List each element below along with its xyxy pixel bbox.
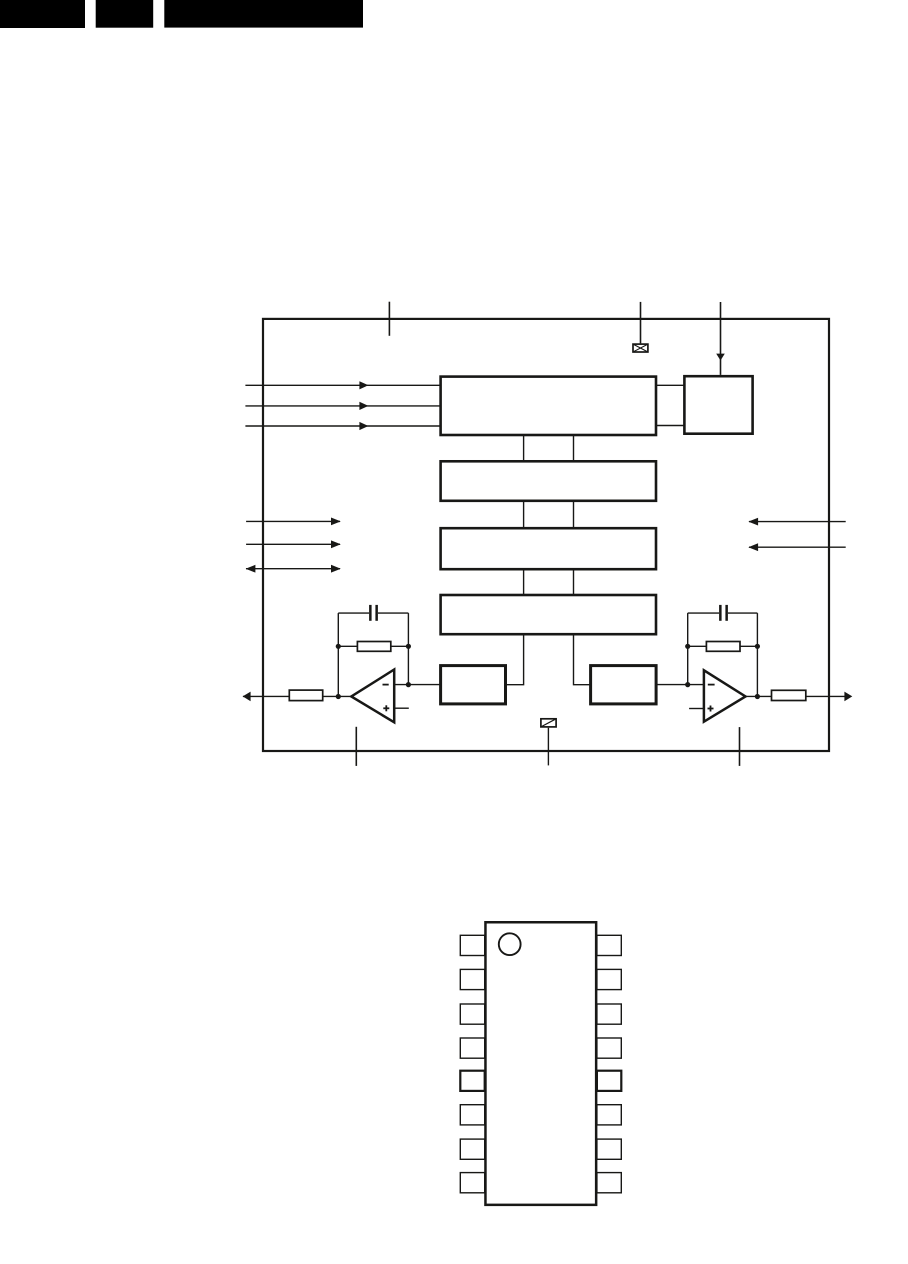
pin 1 — [460, 935, 484, 955]
bus wire 3b — [573, 569, 575, 595]
redaction bar 3 — [164, 0, 363, 28]
package body — [485, 922, 596, 1205]
feedback wire through resistor — [338, 645, 408, 647]
pin 3 — [460, 1004, 484, 1024]
plus sign A1 — [383, 705, 389, 711]
pin 8 — [460, 1173, 484, 1193]
crystal symbol (crossed box) — [633, 344, 648, 352]
capacitor C-fb right plates — [719, 605, 722, 621]
feedback right vertical right channel — [756, 613, 758, 696]
pin 12 (bold) — [597, 1071, 621, 1091]
wire DAC-left to opamp inverting input — [394, 684, 439, 686]
right input line 2 — [748, 543, 845, 551]
wire input-block to osc upper — [657, 384, 684, 386]
node dots feedback resistor right — [685, 644, 690, 649]
node dot right inverting input — [685, 682, 690, 687]
control line bidir 3 — [246, 565, 341, 573]
pin tick bottom middle — [547, 728, 549, 766]
op-amp A2 (points right) — [704, 670, 746, 721]
pin 10 — [597, 1139, 621, 1159]
wire input-block to osc lower — [657, 425, 684, 427]
pin 4 — [460, 1038, 484, 1058]
pin 14 — [597, 1004, 621, 1024]
output wire A1 — [243, 695, 351, 697]
node dot A1 output — [336, 694, 341, 699]
minus sign A2 — [708, 684, 715, 686]
op-amp A1 (points left) — [351, 670, 394, 723]
wire DAC-right to opamp inverting input — [657, 684, 704, 686]
feedback right vertical — [407, 613, 409, 685]
regulator symbol (slashed box) — [541, 719, 556, 727]
block row 2 — [441, 461, 656, 501]
pin 13 — [597, 1038, 621, 1058]
noninverting stub A1 — [394, 707, 409, 709]
pin 11 — [597, 1105, 621, 1125]
pin tick top XTAL — [640, 302, 642, 344]
DAC block right — [591, 666, 657, 704]
output arrowhead right — [844, 692, 852, 702]
pin 16 — [597, 935, 621, 955]
wire row4 to DAC-right — [574, 635, 590, 685]
node dots feedback resistor left — [336, 644, 341, 649]
bus wire 2a — [523, 501, 525, 528]
control line out 1 — [246, 518, 341, 526]
IC boundary box U1 — [263, 319, 829, 751]
feedback left vertical right channel — [687, 613, 689, 685]
pin 9 — [597, 1173, 621, 1193]
wire row4 to DAC-left — [507, 635, 524, 685]
pin 7 — [460, 1139, 484, 1159]
bus wire 1a — [523, 435, 525, 461]
output wire A2 — [746, 695, 846, 697]
feedback wire through resistor right — [688, 645, 758, 647]
control line out 2 — [246, 540, 341, 548]
input block (top wide box) — [441, 377, 656, 435]
feedback left vertical — [337, 613, 339, 696]
feedback resistor R-fb right — [706, 642, 740, 652]
bus wire 2b — [573, 501, 575, 528]
capacitor C-fb left plates — [369, 605, 372, 621]
node dot left inverting input — [406, 682, 411, 687]
pin 2 — [460, 969, 484, 989]
feedback resistor R-fb left — [357, 642, 390, 652]
redaction bar 2 — [96, 0, 154, 28]
bus wire 3a — [523, 569, 525, 595]
pin tick top VCC1 — [388, 302, 390, 336]
arrowhead CLKIN down — [716, 354, 725, 361]
input line 2 with arrow — [245, 402, 440, 410]
output arrowhead left — [243, 692, 251, 702]
minus sign A1 — [383, 684, 389, 686]
DAC block left — [441, 666, 506, 704]
pin 1 index circle — [499, 933, 521, 955]
block row 4 — [441, 595, 656, 634]
pin tick bottom right — [739, 727, 741, 766]
plus sign A2 — [708, 706, 714, 712]
pin 5 (bold) — [460, 1071, 484, 1091]
noninverting stub A2 — [689, 708, 704, 710]
oscillator block (top right box) — [684, 376, 752, 434]
input line 1 with arrow — [245, 381, 440, 389]
output resistor left — [289, 690, 322, 701]
block row 3 — [441, 528, 656, 569]
input line 3 with arrow — [245, 422, 440, 430]
redaction bar 1 (top-left logo) — [0, 0, 85, 28]
pin tick bottom left — [355, 727, 357, 766]
right input line 1 — [748, 518, 845, 526]
pin 15 — [597, 969, 621, 989]
pin 6 — [460, 1105, 484, 1125]
capacitor wire right — [688, 612, 719, 614]
capacitor wire left — [338, 612, 369, 614]
node dot A2 output — [755, 694, 760, 699]
pin tick top CLKIN with arrow — [720, 302, 722, 375]
output resistor right — [772, 690, 806, 700]
bus wire 1b — [573, 435, 575, 461]
